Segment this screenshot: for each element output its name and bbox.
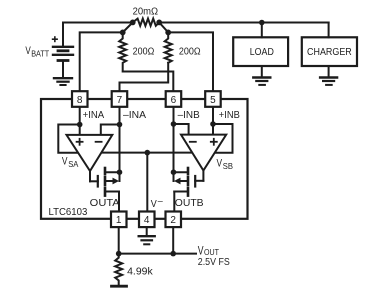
- node VOUT right: [170, 251, 176, 257]
- wire -INA jog to op-amp A minus input: [101, 125, 120, 136]
- wire charger drop: [328, 23, 330, 38]
- label VSB: [217, 157, 234, 171]
- label OUTA: [90, 197, 120, 209]
- pin 5: [205, 91, 221, 107]
- resistor 200 Ohm left: [119, 32, 126, 71]
- svg-text:V: V: [217, 157, 223, 169]
- wire FET A source to pin 1: [118, 192, 120, 212]
- wire -INB jog to op-amp B minus input: [174, 124, 189, 135]
- label LOAD: [250, 46, 274, 58]
- op-amp VSA: [67, 135, 113, 171]
- wire load to ground: [261, 66, 263, 77]
- node right kelvin: [165, 30, 171, 36]
- block LOAD: [233, 37, 288, 66]
- node V- junction: [145, 150, 151, 156]
- label minus in op-amp A: [96, 141, 102, 143]
- wire FET B source to pin 2: [173, 192, 175, 212]
- label plus in op-amp B: [211, 139, 217, 145]
- wire left kelvin to pin 8: [80, 32, 123, 91]
- pin 8: [72, 91, 88, 107]
- wire top rail from battery to charger: [63, 22, 329, 24]
- label 20mOhm: [133, 6, 159, 18]
- label VSA: [62, 156, 79, 170]
- label CHARGER: [307, 46, 352, 58]
- pin 2: [166, 212, 182, 228]
- node -INB junction: [171, 121, 177, 127]
- pin 4: [139, 212, 155, 228]
- wire load drop: [261, 23, 263, 38]
- svg-text:–INB: –INB: [178, 109, 200, 121]
- pin 1: [111, 212, 127, 228]
- wire right 200 Ohm bottom to pin 7 (crossing route): [120, 63, 169, 91]
- svg-text:7: 7: [117, 95, 123, 106]
- svg-text:+INA: +INA: [83, 109, 105, 121]
- svg-text:OUTB: OUTB: [175, 197, 204, 209]
- label 200 Ohm left: [133, 46, 155, 58]
- label LTC6103: [49, 206, 88, 218]
- label -INB: [178, 109, 200, 121]
- label 200 Ohm right: [179, 46, 201, 58]
- svg-text:BATT: BATT: [31, 49, 49, 58]
- ground pin 4: [139, 227, 155, 244]
- resistor 200 Ohm right: [165, 32, 172, 62]
- node VOUT left: [116, 251, 122, 257]
- svg-text:5: 5: [210, 95, 216, 106]
- node load tap: [259, 20, 265, 26]
- IC outline LTC6103: [41, 99, 248, 219]
- svg-text:1: 1: [116, 215, 122, 226]
- svg-text:+INB: +INB: [219, 109, 240, 121]
- battery VBATT: [53, 23, 73, 78]
- wire right kelvin to pin 5: [168, 32, 213, 91]
- resistor 4.99k: [115, 254, 122, 285]
- resistor 20mOhm sense: [133, 19, 160, 26]
- svg-text:V: V: [151, 198, 157, 210]
- svg-text:SB: SB: [223, 162, 233, 171]
- svg-text:LOAD: LOAD: [250, 46, 274, 58]
- svg-text:CHARGER: CHARGER: [307, 46, 352, 58]
- svg-text:200Ω: 200Ω: [133, 46, 155, 58]
- node +INA junction: [77, 122, 83, 128]
- label +INB: [219, 109, 240, 121]
- label +INA: [83, 109, 105, 121]
- svg-text:–: –: [158, 196, 163, 206]
- node +INB junction: [210, 121, 216, 127]
- svg-text:200Ω: 200Ω: [179, 46, 201, 58]
- ground battery: [54, 78, 72, 85]
- ground charger: [320, 78, 337, 85]
- wire VOUT: [119, 253, 196, 255]
- label -INA: [123, 109, 146, 121]
- svg-text:2.5V FS: 2.5V FS: [198, 256, 230, 268]
- svg-text:V: V: [62, 156, 68, 168]
- node left sense terminal: [130, 20, 136, 26]
- label plus in op-amp A: [77, 139, 83, 145]
- label 4.99k: [127, 266, 153, 278]
- svg-text:SA: SA: [68, 160, 79, 169]
- wire charger to ground: [328, 66, 330, 77]
- svg-text:20mΩ: 20mΩ: [133, 6, 159, 18]
- wire pin 2 to VOUT node: [172, 227, 174, 254]
- transistor FET A: [90, 168, 120, 196]
- svg-text:LTC6103: LTC6103: [49, 206, 88, 218]
- svg-text:OUTA: OUTA: [90, 197, 120, 209]
- wire diagonal right kelvin: [159, 22, 168, 32]
- svg-text:8: 8: [77, 95, 83, 106]
- node right sense terminal: [156, 20, 162, 26]
- node left kelvin: [120, 30, 126, 36]
- node -INA junction: [117, 122, 123, 128]
- wire V- rail between op-amps: [98, 152, 196, 154]
- wire pin 6 to FET B: [173, 107, 175, 181]
- ground 4.99k: [112, 285, 127, 288]
- svg-text:–INA: –INA: [123, 109, 146, 121]
- label plus battery: [53, 37, 58, 41]
- block CHARGER: [302, 37, 357, 66]
- wire left 200 Ohm bottom to pin 6 (Z route): [123, 72, 173, 92]
- pin 6: [166, 91, 182, 107]
- wire pin 5 to op-amp B plus input: [212, 107, 214, 135]
- svg-text:2: 2: [170, 215, 176, 226]
- wire pin 1 to VOUT node: [118, 227, 120, 254]
- label minus in op-amp B: [190, 141, 196, 143]
- wire diagonal left kelvin: [123, 22, 133, 32]
- label OUTB: [175, 197, 204, 209]
- ground load: [253, 78, 270, 85]
- label VOUT 2.5V FS: [198, 243, 230, 268]
- wire pin 8 to op-amp A plus input: [79, 107, 81, 136]
- node FET B drain on -INB: [171, 169, 177, 175]
- wire op-amp B supply from +INB: [211, 124, 233, 153]
- label VBATT: [25, 45, 49, 59]
- wire V- to pin 4: [146, 153, 148, 212]
- op-amp VSB: [181, 135, 226, 171]
- pin 7: [112, 91, 128, 107]
- svg-text:6: 6: [171, 95, 177, 106]
- wire op-amp A supply from +INA: [58, 125, 82, 153]
- node FET A drain on -INA: [117, 169, 123, 175]
- transistor FET B: [174, 168, 204, 196]
- label V- above pin 4: [151, 196, 163, 210]
- wire pin 7 to FET A: [119, 107, 121, 181]
- svg-text:4: 4: [144, 215, 150, 226]
- svg-text:4.99k: 4.99k: [127, 266, 153, 278]
